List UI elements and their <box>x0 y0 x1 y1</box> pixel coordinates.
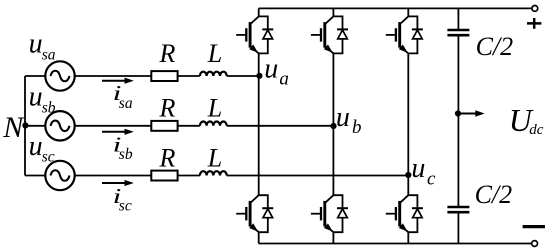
inductor L phase b <box>200 122 227 126</box>
wire node to lower igbt leg3 <box>407 176 409 196</box>
resistor R phase a <box>151 71 177 81</box>
wire phase b to node u_b <box>227 125 334 127</box>
resistor R phase b <box>151 121 177 131</box>
igbt+diode bottom leg3 <box>386 195 423 232</box>
wire lower igbt to bottom bus leg1 <box>258 232 260 243</box>
svg-text:sb: sb <box>42 99 56 116</box>
svg-text:sa: sa <box>42 46 56 63</box>
svg-text:C/2: C/2 <box>475 180 513 209</box>
node u_c dot <box>405 172 411 178</box>
node N <box>22 122 28 128</box>
label + <box>527 18 541 29</box>
igbt+diode bottom leg2 <box>311 195 348 232</box>
arrow U_dc tap <box>458 113 477 115</box>
wire neutral to source sb <box>25 125 45 127</box>
node u_a dot <box>256 73 262 79</box>
wire igbt to node u_c <box>407 53 409 175</box>
svg-text:C/2: C/2 <box>476 32 514 61</box>
wire neutral to source sc <box>25 175 45 177</box>
wire dc link middle <box>457 35 459 207</box>
wire dc link lower <box>457 212 459 243</box>
svg-text:sa: sa <box>119 95 133 112</box>
igbt+diode top leg2 <box>311 16 348 53</box>
terminal - circle <box>532 241 538 247</box>
inductor L phase a <box>200 72 227 76</box>
wire top bus to igbt leg2 <box>332 8 334 16</box>
igbt+diode top leg1 <box>236 16 273 53</box>
current arrow i_sb <box>102 131 127 133</box>
wire top bus to igbt leg3 <box>407 8 409 16</box>
wire phase a to node u_a <box>227 75 259 77</box>
svg-text:R: R <box>159 143 176 172</box>
wire source sc to resistor <box>75 175 152 177</box>
svg-text:a: a <box>279 69 289 90</box>
node u_b dot <box>330 123 336 129</box>
wire igbt to node u_b <box>332 53 334 125</box>
wire neutral vertical <box>24 76 26 176</box>
svg-text:u: u <box>29 28 43 59</box>
wire phase c to node u_c <box>227 175 409 177</box>
svg-text:u: u <box>411 153 425 184</box>
current arrow i_sa <box>102 80 127 82</box>
ac source Vsa <box>45 61 74 90</box>
svg-text:b: b <box>352 117 362 138</box>
inductor L phase c <box>200 171 227 175</box>
wire top bus to igbt leg1 <box>258 8 260 16</box>
wire top dc bus <box>259 7 532 9</box>
ac source Vsc <box>45 161 74 190</box>
wire lower igbt to bottom bus leg2 <box>332 232 334 243</box>
current arrow i_sc <box>102 182 127 184</box>
wire resistor to inductor c <box>178 175 200 177</box>
wire bottom dc bus <box>259 243 532 245</box>
wire node to lower igbt leg1 <box>258 76 260 195</box>
wire source sa to resistor <box>75 75 152 77</box>
svg-text:u: u <box>336 102 350 133</box>
igbt+diode top leg3 <box>386 16 423 53</box>
svg-text:L: L <box>207 39 222 68</box>
svg-text:R: R <box>159 39 176 68</box>
wire igbt to node u_a <box>258 53 260 76</box>
wire source sb to resistor <box>75 125 152 127</box>
wire resistor to inductor b <box>178 125 200 127</box>
wire lower igbt to bottom bus leg3 <box>407 232 409 243</box>
svg-text:u: u <box>29 81 43 112</box>
svg-text:sb: sb <box>119 146 133 163</box>
svg-text:N: N <box>2 111 25 144</box>
wire dc link upper <box>457 8 459 30</box>
label - <box>523 225 545 228</box>
svg-text:L: L <box>207 93 222 122</box>
igbt+diode bottom leg1 <box>236 195 273 232</box>
svg-text:R: R <box>159 93 176 122</box>
svg-text:sc: sc <box>119 198 132 215</box>
node dc midpoint <box>455 110 461 116</box>
capacitor C/2 bottom <box>447 207 469 212</box>
terminal + circle <box>532 5 538 11</box>
wire neutral to source sa <box>25 75 45 77</box>
svg-text:c: c <box>427 169 436 190</box>
svg-text:L: L <box>207 143 222 172</box>
svg-text:u: u <box>264 54 278 85</box>
wire node to lower igbt leg2 <box>332 126 334 195</box>
svg-text:dc: dc <box>529 122 544 138</box>
ac source Vsb <box>45 111 74 140</box>
svg-text:sc: sc <box>42 149 55 166</box>
svg-text:u: u <box>29 131 43 162</box>
wire resistor to inductor a <box>178 75 200 77</box>
resistor R phase c <box>151 171 177 181</box>
capacitor C/2 top <box>447 30 469 35</box>
